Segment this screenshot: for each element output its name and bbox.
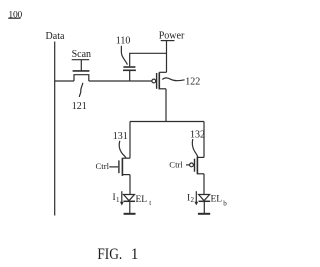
wire capacitor bottom plate to gate node <box>129 71 131 81</box>
svg-text:2: 2 <box>191 196 195 204</box>
power line wire <box>166 41 168 73</box>
leader line to transistor 131 <box>119 141 126 158</box>
current arrow I2 <box>195 191 197 202</box>
svg-text:1: 1 <box>116 196 120 204</box>
svg-text:122: 122 <box>185 77 200 88</box>
transistor 122 drain lead <box>159 71 166 73</box>
data line wire <box>54 42 56 216</box>
svg-text:EL: EL <box>136 195 148 205</box>
wire diode EL_b to ground <box>203 201 205 213</box>
svg-text:Data: Data <box>46 31 65 42</box>
svg-text:Ctrl: Ctrl <box>96 161 110 171</box>
leader line to transistor 132 <box>192 139 198 157</box>
transistor 131 gate wire <box>109 166 118 168</box>
transistor 122 source lead <box>159 88 166 90</box>
transistor 121 gate bar <box>73 70 90 72</box>
wire transistor 121 drain to capacitor node <box>89 80 130 82</box>
transistor 132 drain lead <box>197 156 204 158</box>
power terminal bar <box>161 40 175 42</box>
transistor 132 gate bubble <box>190 163 194 167</box>
transistor 132 gate wire <box>186 164 190 166</box>
svg-text:b: b <box>223 199 227 207</box>
label I2 <box>187 194 195 205</box>
svg-text:131: 131 <box>113 131 128 142</box>
svg-text:110: 110 <box>116 36 131 47</box>
svg-text:121: 121 <box>72 101 87 112</box>
current arrow I1 <box>121 191 123 202</box>
transistor 132 channel bar <box>196 157 198 175</box>
label I1 <box>113 193 121 204</box>
transistor 131 drain lead <box>122 157 130 159</box>
ground right <box>198 213 210 215</box>
wire rail left half <box>130 121 166 123</box>
transistor 131 gate bar <box>118 160 120 173</box>
wire transistor 122 source down to rail <box>165 89 167 122</box>
transistor 122 gate bar <box>156 73 158 89</box>
svg-text:1: 1 <box>131 246 139 263</box>
figure label 100 <box>8 10 22 20</box>
svg-text:EL: EL <box>211 195 223 205</box>
wire rail down to transistor 131 drain <box>129 122 131 159</box>
svg-text:Scan: Scan <box>72 49 91 60</box>
capacitor C110 bottom plate <box>123 69 136 71</box>
svg-text:132: 132 <box>190 129 205 140</box>
transistor 121 channel <box>74 75 89 81</box>
wire rail down to transistor 132 drain <box>203 122 205 158</box>
wire data line to transistor 121 source <box>55 80 74 82</box>
transistor 132 gate bar <box>194 159 196 172</box>
svg-text:FIG.: FIG. <box>97 246 122 263</box>
diode EL_a <box>124 195 135 201</box>
ground left <box>124 213 136 215</box>
transistor 122 channel bar <box>158 72 160 89</box>
svg-text:Power: Power <box>159 31 185 42</box>
wire diode EL_a to ground <box>129 201 131 213</box>
capacitor C110 top plate <box>123 66 135 68</box>
diode EL_b <box>199 195 210 201</box>
transistor 132 source lead <box>197 173 204 175</box>
transistor 131 channel bar <box>121 158 123 176</box>
transistor 122 gate bubble <box>152 79 156 83</box>
svg-text:t: t <box>149 199 151 207</box>
leader line to capacitor 110 <box>121 46 127 65</box>
scan terminal bar <box>72 59 90 61</box>
wire transistor 132 source down to diode <box>203 174 205 194</box>
label EL_a <box>136 195 152 207</box>
svg-text:Ctrl: Ctrl <box>169 160 183 170</box>
leader tilde to transistor 122 <box>162 78 184 81</box>
scan gate lead wire <box>80 60 82 71</box>
label EL_b <box>211 195 228 208</box>
wire transistor 131 source down to diode <box>129 175 131 195</box>
wire capacitor top plate to power line <box>130 53 167 66</box>
transistor 131 source lead <box>122 174 130 176</box>
leader line to transistor 121 <box>79 83 83 97</box>
wire gate node to transistor 122 gate <box>130 80 152 82</box>
wire rail right half <box>166 121 204 123</box>
